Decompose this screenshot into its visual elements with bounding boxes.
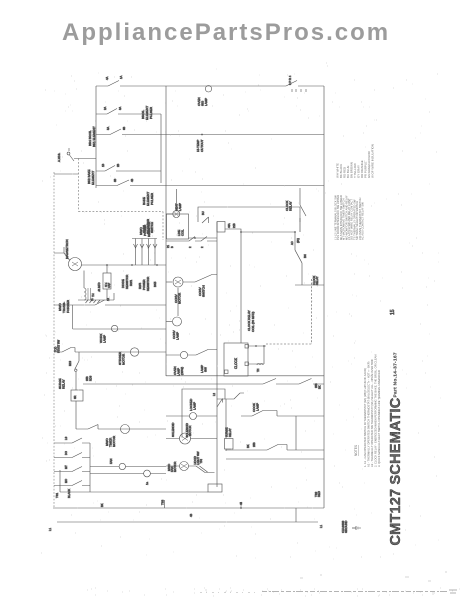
solenoid motor (180, 433, 191, 444)
svg-text:LAMP: LAMP (176, 332, 180, 340)
HV capacitor (106, 265, 108, 300)
svg-text:LAMP: LAMP (103, 335, 107, 343)
switch row y305 (95, 300, 105, 305)
svg-text:15: 15 (390, 309, 396, 315)
node junction (201, 134, 203, 136)
svg-text:COIL: COIL (181, 229, 185, 236)
svg-text:BK: BK (100, 503, 104, 507)
svg-text:(40W): (40W) (180, 367, 184, 375)
svg-text:LAMP: LAMP (193, 402, 197, 410)
svg-text:RESISTOR: RESISTOR (146, 277, 150, 291)
dashed linkage left (79, 159, 164, 241)
wire solenoid row (166, 438, 217, 440)
svg-text:RESISTOR: RESISTOR (147, 221, 151, 237)
switch on top bus left (108, 81, 119, 87)
center bus (216, 222, 218, 487)
svg-text:TS3: TS3 (161, 499, 165, 505)
svg-text:MOTOR: MOTOR (188, 426, 192, 436)
wire bake pulser row (96, 185, 324, 187)
svg-text:LS: LS (64, 437, 68, 440)
interlock vertical (225, 399, 227, 451)
svg-text:2: 2 (200, 246, 204, 248)
svg-text:1B: 1B (101, 164, 105, 167)
oven lamp (180, 351, 187, 358)
switch hi-temp (110, 129, 121, 135)
wire magnetron feed (54, 247, 70, 260)
wire hi-temp row (96, 134, 324, 136)
svg-text:FORMER: FORMER (66, 299, 70, 313)
surge relay tap (78, 352, 80, 361)
svg-text:4A: 4A (105, 76, 109, 80)
svg-text:12: 12 (106, 298, 110, 301)
svg-text:RW1: RW1 (129, 279, 133, 286)
wire sub bus (x161) (160, 114, 162, 183)
bus bottom y508 (53, 507, 324, 509)
fan motor pilot (119, 463, 125, 469)
svg-text:TS1: TS1 (55, 492, 59, 498)
svg-text:TH: TH (257, 368, 260, 372)
svg-text:25B: 25B (314, 383, 318, 388)
svg-text:A2 - THERMALLY OPERATED SWITCH: A2 - THERMALLY OPERATED SWITCH THERMOSTA… (367, 361, 371, 467)
switch on y384 (299, 379, 312, 385)
wire broil pulser row (96, 113, 161, 115)
wire row y241 (166, 237, 217, 242)
svg-text:GROUND: GROUND (344, 521, 348, 533)
svg-text:2. CLOCK RELAY - ENERGIZED WH: 2. CLOCK RELAY - ENERGIZED WHEN PERFORMI… (374, 355, 378, 467)
work lamp row (73, 328, 166, 330)
svg-text:2B: 2B (116, 164, 120, 167)
wire locked lamp stem (166, 415, 217, 417)
wire clock pin1 (249, 345, 267, 347)
svg-text:MO: MO (64, 479, 68, 483)
wire conv motor left (166, 281, 172, 283)
conv motor (173, 277, 183, 287)
wire drop to work lamp row (72, 305, 74, 329)
svg-text:CMT127 SCHEMATIC: CMT127 SCHEMATIC (388, 397, 404, 545)
cavity box top (198, 207, 300, 222)
wire surge relay out y384 (83, 383, 324, 385)
svg-text:TH: TH (91, 293, 95, 297)
clock pins (245, 345, 249, 349)
svg-text:SWITCH: SWITCH (202, 285, 206, 297)
svg-text:3B: 3B (113, 179, 117, 182)
wire mid bus (x166) (165, 86, 167, 376)
svg-text:PULSER: PULSER (149, 106, 153, 119)
wire top bus L2 (96, 85, 324, 87)
svg-text:FAN: FAN (109, 459, 113, 464)
svg-text:NOTES: NOTES (354, 445, 358, 456)
svg-text:CUTOUT: CUTOUT (200, 139, 204, 152)
svg-text:BU: BU (201, 211, 205, 215)
node junctions y265 (106, 264, 108, 266)
conv switch (183, 275, 217, 283)
svg-text:40A: 40A (227, 223, 231, 228)
svg-text:RELAY: RELAY (289, 201, 293, 211)
work lamp (111, 325, 117, 331)
svg-text:25B: 25B (85, 376, 89, 381)
switch bake pulser (117, 180, 129, 186)
svg-text:DO: DO (64, 451, 68, 455)
svg-text:BK1 ELEMENT: BK1 ELEMENT (92, 126, 96, 147)
switch on center bus (217, 399, 223, 408)
collector vertical (89, 443, 91, 492)
legend color code block (336, 144, 375, 178)
box corner right (295, 416, 297, 450)
svg-text:3. QUICK MANUALLY-HEAT SWITC: 3. QUICK MANUALLY-HEAT SWITCH OPENINGS A… (377, 370, 381, 467)
svg-text:21: 21 (166, 245, 170, 248)
switch right column (295, 250, 302, 263)
MWO timer motor (121, 425, 130, 434)
wire conv lamp left (166, 321, 172, 323)
clock coil symbol (257, 364, 263, 366)
fan row (90, 466, 166, 468)
wire right bus (323, 86, 325, 508)
oven lamp switch (196, 350, 208, 356)
wire bake row (96, 170, 161, 172)
wire bus B (x96) (95, 86, 97, 188)
svg-text:21B: 21B (232, 223, 236, 228)
svg-text:BN: BN (303, 254, 307, 258)
bus bottom y522 (57, 521, 318, 523)
svg-text:M13: M13 (68, 360, 72, 366)
svg-text:MOTOR: MOTOR (173, 462, 177, 472)
svg-text:L1: L1 (48, 527, 52, 531)
svg-text:ELEMENT: ELEMENT (91, 171, 95, 185)
svg-text:SOLENOID: SOLENOID (171, 423, 175, 437)
svg-text:8 P R 4: 8 P R 4 (288, 75, 292, 85)
svg-text:1A: 1A (119, 75, 123, 79)
svg-text:SR: SR (74, 395, 77, 399)
wire clock coil drop (240, 232, 242, 343)
legend switch list block (334, 195, 365, 240)
svg-text:TRI: TRI (199, 459, 203, 464)
svg-text:AC AUX CONTACT RELAY SW: AC AUX CONTACT RELAY SW (361, 202, 365, 240)
lock assembly box (182, 389, 225, 438)
svg-text:START SW: START SW (57, 339, 61, 353)
svg-text:L1: L1 (319, 524, 323, 528)
oven lamp 1a row (90, 473, 166, 475)
chassis hatch (86, 300, 101, 303)
svg-text:PULSER: PULSER (150, 192, 154, 205)
switch on top bus right (286, 81, 297, 87)
svg-text:W OF WIRE INSULATION: W OF WIRE INSULATION (371, 144, 375, 178)
stirrer motor row (54, 348, 166, 353)
svg-text:RELAY: RELAY (228, 428, 232, 437)
scan noise bottom (262, 591, 447, 593)
triac box on bus (217, 222, 225, 233)
wire row y238 (189, 237, 218, 239)
oven signal lamp (205, 86, 211, 92)
right column drop (295, 232, 324, 285)
svg-text:RELAY: RELAY (315, 276, 319, 285)
svg-text:BK5: BK5 (153, 281, 157, 287)
lamp 1a (144, 470, 151, 477)
svg-text:LAMP: LAMP (204, 98, 208, 106)
conv lamp (173, 317, 182, 326)
switch bake (105, 166, 115, 172)
svg-text:L2: L2 (212, 393, 216, 396)
svg-text:BK: BK (318, 385, 322, 389)
svg-text:RED: RED (317, 491, 321, 497)
svg-text:RD8: RD8 (89, 375, 93, 381)
MWO fan motor (180, 462, 189, 471)
svg-text:.91 MFD: .91 MFD (98, 282, 101, 292)
svg-text:BK: BK (246, 444, 250, 448)
wire left bus L1 (53, 172, 55, 508)
dashed clock linkage (311, 279, 313, 344)
wire heat lamp feed (166, 189, 177, 214)
svg-text:4B: 4B (189, 514, 193, 517)
svg-text:B: B (170, 246, 174, 248)
wire lock top row y399 (217, 393, 244, 399)
tick TS3 (164, 500, 166, 508)
svg-text:CAP: CAP (108, 283, 111, 288)
switch broil pulser (107, 109, 117, 115)
svg-text:MOTOR: MOTOR (112, 435, 116, 447)
svg-text:RELAY: RELAY (62, 379, 66, 389)
relay contact (202, 217, 209, 223)
svg-text:MOTOR: MOTOR (122, 353, 126, 365)
svg-text:SW: SW (204, 367, 208, 372)
svg-text:2: 2 (188, 246, 192, 248)
svg-text:6B: 6B (122, 127, 126, 130)
wire clock pin2 (249, 346, 265, 364)
wire timer feed (76, 425, 166, 430)
svg-text:MAGNETRON: MAGNETRON (65, 240, 69, 260)
svg-text:A3 - THERMALLY OPERATED SW THE: A3 - THERMALLY OPERATED SW THERMOSTAT (9… (370, 358, 374, 467)
wire row y305 (54, 304, 166, 306)
svg-text:4B: 4B (130, 179, 134, 182)
svg-text:A.W.S.: A.W.S. (57, 153, 61, 162)
node ticks top right (292, 89, 306, 92)
svg-text:AC: AC (290, 241, 294, 245)
wire row y375.8 (166, 375, 324, 377)
surge relay 2 (225, 439, 234, 450)
wire HV line y265 (82, 264, 167, 266)
svg-text:3A: 3A (118, 107, 122, 110)
svg-text:5A: 5A (106, 127, 110, 130)
svg-text:LAMP: LAMP (256, 403, 260, 411)
svg-text:(9V): (9V) (296, 238, 300, 243)
wire secondary rail (78, 293, 114, 300)
svg-text:MT: MT (64, 465, 68, 469)
wire fan motor row (166, 465, 196, 467)
clock box (224, 343, 248, 376)
cook row y416 (241, 411, 324, 417)
svg-text:25B: 25B (252, 442, 256, 447)
wire conv motor to conv lamp (177, 288, 179, 316)
svg-text:2A: 2A (103, 107, 107, 110)
resistor bank MWO power resistor (132, 238, 157, 240)
svg-text:BLACK: BLACK (67, 489, 71, 498)
wire row y492 (60, 470, 208, 492)
svg-text:1a: 1a (145, 481, 149, 485)
heat relay box (167, 214, 189, 239)
svg-text:SURGE: SURGE (225, 427, 229, 437)
notes block (354, 355, 381, 467)
svg-text:LAMP: LAMP (178, 203, 182, 211)
wire AWS to bus (54, 159, 96, 175)
svg-text:CLOCK: CLOCK (234, 357, 238, 369)
svg-text:1. A1 - CAM OPERATED SWITCH I: 1. A1 - CAM OPERATED SWITCH IN THERMOSTA… (363, 368, 367, 467)
svg-text:Part No.14-37-167: Part No.14-37-167 (393, 352, 399, 397)
wire y459 row (226, 458, 324, 460)
locked lamp (190, 413, 197, 420)
wire y450 row (226, 445, 324, 451)
wire oven lamp row (166, 350, 217, 356)
wire clock feeder row y232 (225, 229, 295, 232)
stirrer motor (130, 348, 138, 356)
